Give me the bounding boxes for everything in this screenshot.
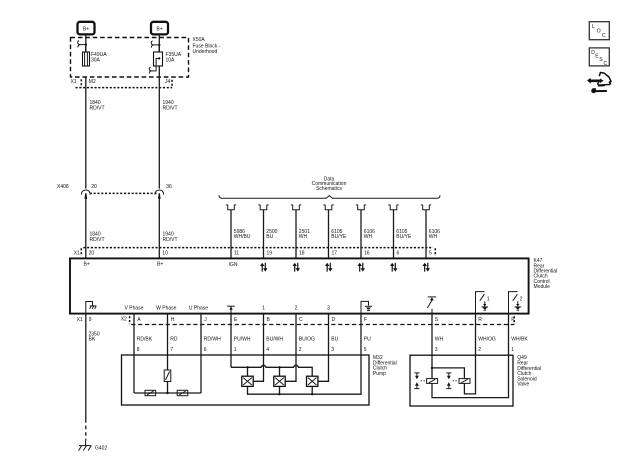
wire coil1 to pin B bbox=[253, 355, 263, 381]
svg-text:6: 6 bbox=[397, 251, 400, 257]
svg-text:BU/WH: BU/WH bbox=[266, 337, 283, 343]
pump solenoid coil 1 bbox=[242, 376, 253, 386]
wire 6106 WH bbox=[361, 210, 375, 258]
icon button LOC bbox=[589, 22, 609, 40]
svg-text:C: C bbox=[604, 61, 608, 67]
ground G402 bbox=[79, 441, 108, 452]
svg-text:4: 4 bbox=[266, 347, 269, 353]
solenoid feed wire pin E internal with bus bbox=[231, 355, 312, 376]
svg-text:3: 3 bbox=[331, 347, 334, 353]
icon button DESC bbox=[589, 48, 609, 67]
valve Q49 box bbox=[410, 355, 513, 406]
svg-text:BU/OG: BU/OG bbox=[299, 337, 315, 343]
wire 6105 BU/YE second bbox=[394, 210, 412, 258]
solenoid common rail to pin F bbox=[248, 355, 362, 395]
wire BU/OG pin C bbox=[296, 313, 315, 355]
label K47 Rear Differential Clutch Control Module bbox=[534, 258, 558, 290]
svg-text:5: 5 bbox=[429, 251, 432, 257]
svg-text:2: 2 bbox=[520, 296, 523, 302]
svg-text:WH: WH bbox=[429, 234, 438, 240]
svg-text:Module: Module bbox=[534, 284, 551, 290]
svg-text:RD/WH: RD/WH bbox=[204, 337, 221, 343]
svg-text:U Phase: U Phase bbox=[189, 305, 208, 311]
svg-text:RD: RD bbox=[170, 337, 178, 343]
label X50A Fuse Block - Underhood bbox=[193, 37, 221, 55]
brace over data connectors bbox=[219, 195, 440, 198]
svg-text:B+: B+ bbox=[157, 262, 163, 268]
svg-text:X50A: X50A bbox=[193, 37, 206, 43]
bidirectional arrows pin 19 bbox=[260, 263, 268, 272]
wire 1840 RD/VT lower segment bbox=[86, 199, 105, 259]
junction H-rail bbox=[166, 392, 168, 394]
connector X1 pin 9 (bottom) bbox=[77, 313, 92, 324]
svg-text:2: 2 bbox=[478, 347, 481, 353]
svg-text:Schematics: Schematics bbox=[316, 186, 342, 192]
bidirectional arrows pin 5 bbox=[423, 263, 431, 272]
svg-text:7: 7 bbox=[170, 347, 173, 353]
svg-text:O: O bbox=[597, 29, 601, 35]
svg-text:RD/VT: RD/VT bbox=[90, 105, 105, 111]
inline connector symbol on wire 1940 bbox=[155, 190, 164, 199]
svg-text:H: H bbox=[171, 317, 175, 323]
fuse F35UA (cartridge with lower clip) bbox=[149, 45, 162, 77]
motor brush left bbox=[145, 390, 156, 395]
svg-text:J4: J4 bbox=[165, 79, 171, 85]
wire coil2 to pin C bbox=[285, 355, 296, 381]
svg-text:30A: 30A bbox=[91, 58, 101, 64]
bidirectional arrows pin 18 bbox=[293, 263, 301, 272]
svg-text:18: 18 bbox=[299, 251, 305, 257]
svg-text:16: 16 bbox=[364, 251, 370, 257]
internal driver switch 2 above pin P bbox=[509, 292, 523, 314]
internal chassis ground above pin 9 bbox=[86, 302, 97, 314]
bidirectional arrows pin 17 bbox=[325, 263, 333, 272]
label M32 Differential Clutch Pump bbox=[373, 355, 397, 377]
wire RD/BK pin A bbox=[134, 313, 153, 355]
svg-text:WH/BU: WH/BU bbox=[234, 234, 251, 240]
bidirectional arrows pin 16 bbox=[358, 263, 366, 272]
svg-text:X408: X408 bbox=[57, 184, 69, 190]
wire BU pin D bbox=[329, 313, 339, 355]
svg-text:F: F bbox=[364, 317, 367, 323]
fuse F49UA bbox=[83, 45, 90, 66]
wire 5986 WH/BU bbox=[231, 210, 251, 258]
svg-text:BU/YE: BU/YE bbox=[396, 234, 412, 240]
off-page connector pin 18 bbox=[291, 205, 301, 210]
motor wire pin A internal bbox=[133, 355, 135, 393]
svg-text:17: 17 bbox=[332, 251, 338, 257]
svg-text:B+: B+ bbox=[84, 262, 90, 268]
svg-text:WH/OG: WH/OG bbox=[478, 337, 496, 343]
off-page connector pin 16 bbox=[356, 205, 366, 210]
svg-text:BU: BU bbox=[266, 234, 273, 240]
svg-text:X1: X1 bbox=[71, 79, 77, 85]
svg-text:G402: G402 bbox=[95, 445, 107, 451]
wire 1940 RD/VT upper segment bbox=[159, 88, 177, 189]
svg-text:20: 20 bbox=[91, 184, 97, 190]
valve coil 2 bbox=[459, 379, 470, 384]
svg-text:2: 2 bbox=[295, 305, 298, 311]
wire 2350 BK bbox=[86, 325, 100, 441]
svg-text:9: 9 bbox=[89, 317, 92, 323]
bidirectional arrows pin 6 bbox=[390, 263, 398, 272]
valve common rail to pin P bbox=[432, 355, 509, 397]
label F35UA 10A bbox=[166, 52, 182, 63]
svg-text:D: D bbox=[332, 317, 336, 323]
svg-text:BU/YE: BU/YE bbox=[331, 234, 347, 240]
wire WH/OG pin R bbox=[476, 313, 496, 355]
wire RD/WH pin J bbox=[201, 313, 221, 355]
motor wire pin J internal bbox=[200, 355, 202, 393]
icon vehicle with arrow and wrench bbox=[587, 73, 611, 94]
internal switch above pin S bbox=[427, 297, 436, 314]
svg-text:WH: WH bbox=[435, 337, 444, 343]
label F49UA 30A bbox=[91, 52, 107, 63]
svg-text:WH: WH bbox=[364, 234, 373, 240]
svg-text:1: 1 bbox=[234, 347, 237, 353]
module K47 box bbox=[70, 258, 529, 313]
off-page connector pin 17 bbox=[323, 205, 333, 210]
svg-text:PU: PU bbox=[364, 337, 371, 343]
svg-text:19: 19 bbox=[267, 251, 273, 257]
wire 2500 BU bbox=[264, 210, 278, 258]
svg-text:Underhood: Underhood bbox=[193, 49, 218, 55]
terminal clip at top of fuse F49UA bbox=[78, 41, 87, 48]
svg-text:IGN: IGN bbox=[229, 262, 238, 268]
svg-text:36: 36 bbox=[166, 184, 172, 190]
svg-text:1: 1 bbox=[487, 296, 490, 302]
pump solenoid coil 2 bbox=[274, 376, 285, 386]
internal driver switch 1 above pin R bbox=[476, 292, 490, 314]
connector X2 of module (bottom row) bbox=[121, 316, 516, 324]
svg-text:1: 1 bbox=[511, 347, 514, 353]
motor bottom rail bbox=[134, 392, 201, 394]
svg-text:Pump: Pump bbox=[373, 371, 386, 377]
svg-text:X1: X1 bbox=[77, 317, 83, 323]
wire B+ left to fuse F49UA bbox=[85, 34, 87, 52]
svg-text:10A: 10A bbox=[166, 58, 176, 64]
svg-text:3: 3 bbox=[327, 305, 330, 311]
off-page connector pin 19 bbox=[258, 205, 268, 210]
valve common S to coil2 bbox=[432, 368, 464, 379]
svg-text:10: 10 bbox=[162, 251, 168, 257]
motor wire pin H internal bbox=[167, 355, 169, 370]
wire 6106 WH second bbox=[426, 210, 440, 258]
wire PU pin F bbox=[361, 313, 371, 355]
wire 1940 RD/VT lower segment bbox=[159, 199, 177, 259]
valve coil 1 bbox=[427, 379, 438, 384]
battery terminal B+ left bbox=[78, 22, 95, 35]
internal ground above pin F bbox=[361, 301, 372, 313]
wire BU/WH pin B bbox=[264, 313, 284, 355]
svg-text:B+: B+ bbox=[83, 26, 89, 32]
off-page connector pin 11 bbox=[226, 205, 236, 210]
svg-text:C: C bbox=[602, 33, 606, 39]
connector X1 of module (top row) bbox=[74, 248, 436, 257]
valve actuator 1 bbox=[414, 373, 425, 389]
svg-text:L: L bbox=[592, 24, 595, 30]
valve actuator 2 bbox=[446, 373, 457, 389]
motor brush right bbox=[177, 390, 188, 395]
pump solenoid coil 3 bbox=[307, 376, 318, 386]
off-page connector pin 5 bbox=[421, 205, 431, 210]
connector X408 (pins 20 / 36) bbox=[57, 184, 172, 193]
svg-text:1: 1 bbox=[262, 305, 265, 311]
wire 6105 BU/YE bbox=[329, 210, 347, 258]
svg-text:R: R bbox=[478, 317, 482, 323]
battery terminal B+ right bbox=[151, 22, 168, 35]
label Data Communication Schematics bbox=[312, 176, 347, 192]
svg-text:3: 3 bbox=[435, 347, 438, 353]
label Q49 Rear Differential Clutch Solenoid Valve bbox=[517, 355, 541, 388]
svg-text:11: 11 bbox=[234, 251, 239, 257]
svg-text:WH/BK: WH/BK bbox=[511, 337, 528, 343]
wire WH pin S bbox=[432, 313, 444, 355]
wire coil3 to pin D bbox=[318, 355, 329, 381]
svg-text:BK: BK bbox=[89, 337, 96, 343]
svg-text:5: 5 bbox=[364, 347, 367, 353]
svg-text:20: 20 bbox=[89, 251, 95, 257]
svg-text:PU/WH: PU/WH bbox=[234, 337, 251, 343]
pump M32 box bbox=[122, 355, 370, 405]
motor thermistor on H bbox=[164, 370, 171, 393]
internal supply symbol above pin E bbox=[227, 306, 235, 313]
svg-text:X1: X1 bbox=[74, 251, 80, 257]
svg-text:WH: WH bbox=[299, 234, 308, 240]
wire WH/BK pin P bbox=[509, 313, 529, 355]
wire B+ right to fuse F35UA bbox=[158, 34, 160, 52]
svg-text:C: C bbox=[299, 317, 303, 323]
connector X1 of fuse block (pins M2 / J4) bbox=[71, 77, 173, 88]
svg-text:RD/VT: RD/VT bbox=[163, 105, 178, 111]
svg-text:BU: BU bbox=[331, 337, 338, 343]
wire coil2 to pin R bbox=[464, 355, 475, 394]
fuse block X50A dashed outline bbox=[71, 38, 189, 78]
wire PU/WH pin E bbox=[231, 313, 251, 355]
wire 2501 WH bbox=[296, 210, 310, 258]
svg-text:V Phase: V Phase bbox=[125, 305, 144, 311]
inline connector symbol on wire 1840 bbox=[81, 190, 90, 199]
svg-text:2: 2 bbox=[299, 347, 302, 353]
off-page connector pin 6 bbox=[388, 205, 398, 210]
svg-text:RD/BK: RD/BK bbox=[137, 337, 153, 343]
svg-text:6: 6 bbox=[204, 347, 207, 353]
svg-text:W Phase: W Phase bbox=[156, 305, 177, 311]
svg-text:B+: B+ bbox=[156, 26, 162, 32]
svg-text:Valve: Valve bbox=[517, 382, 529, 388]
wire RD pin H bbox=[168, 313, 178, 355]
svg-text:8: 8 bbox=[137, 347, 140, 353]
terminal clip at top of fuse F35UA bbox=[151, 41, 160, 48]
wire 1840 RD/VT upper segment bbox=[86, 88, 105, 189]
valve wire S internal bbox=[431, 355, 433, 378]
svg-text:M2: M2 bbox=[89, 79, 96, 85]
svg-text:X2: X2 bbox=[121, 317, 127, 323]
svg-text:RD/VT: RD/VT bbox=[163, 237, 178, 243]
svg-text:RD/VT: RD/VT bbox=[90, 237, 105, 243]
